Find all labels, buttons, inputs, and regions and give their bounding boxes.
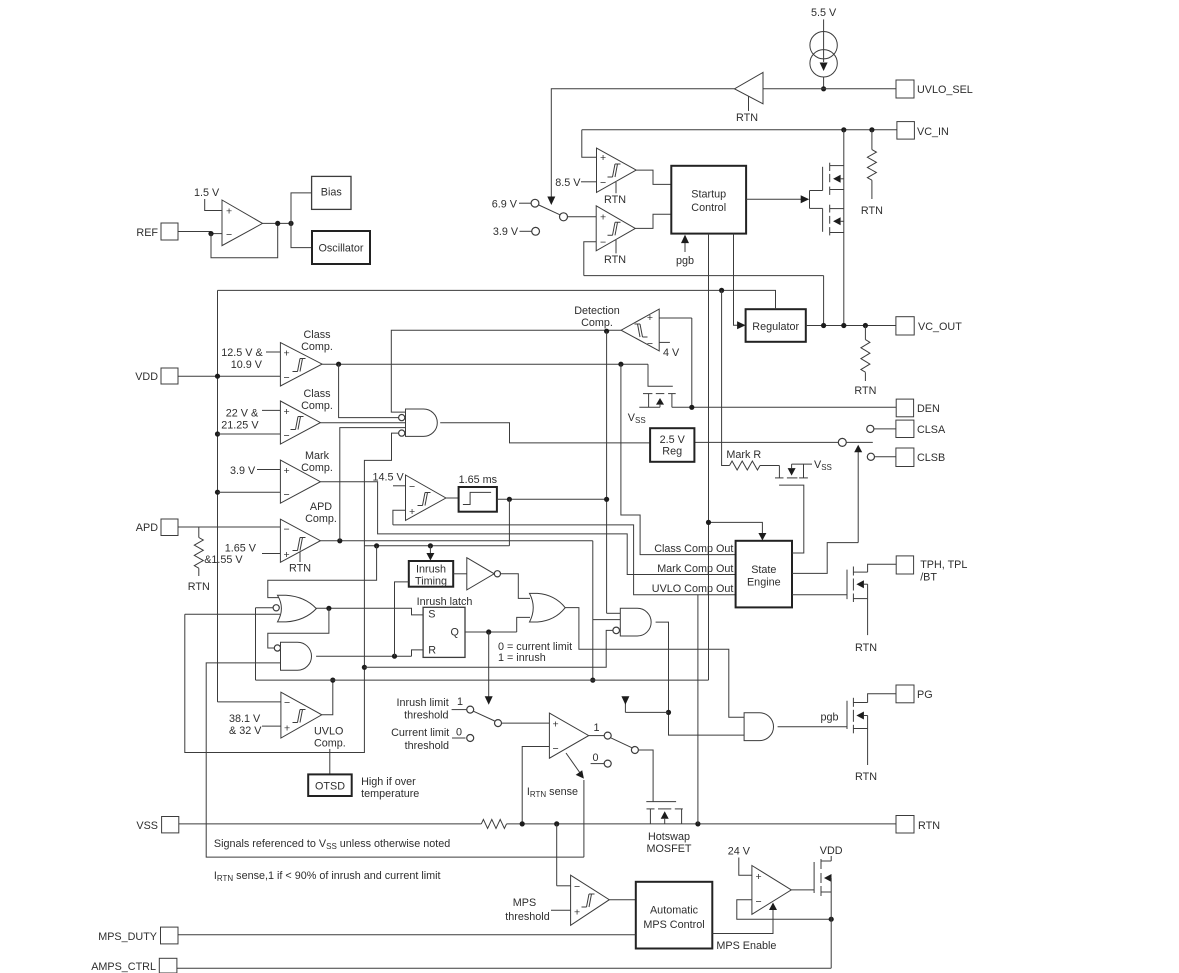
wire Class1 to NAND bubble1 — [339, 364, 399, 417]
pin UVLO_SEL — [896, 80, 914, 98]
wire VDD bus to Mark inverting — [218, 491, 281, 493]
svg-text:3.9 V: 3.9 V — [493, 226, 519, 238]
wire Class Comp Out to State Engine — [621, 364, 736, 554]
svg-text:DEN: DEN — [917, 403, 940, 415]
comparator U9 14.5V — [406, 475, 446, 520]
resistor R_sense — [481, 819, 506, 828]
wire branch arrow to threshold switch — [625, 711, 668, 713]
gate OR2 inrush-or-limit — [530, 593, 566, 622]
wire 1.65ms output — [497, 498, 607, 500]
current source I1 — [823, 19, 825, 33]
wire U12 output — [609, 899, 636, 901]
svg-text:1: 1 — [593, 722, 599, 734]
wire VC_IN rail — [582, 129, 897, 131]
svg-text:MOSFET: MOSFET — [647, 843, 692, 855]
block Bias — [312, 176, 351, 209]
wire UVLO bus — [256, 679, 709, 681]
resistor Mark R — [730, 461, 760, 470]
gate G1 5-input AND (class window) — [406, 409, 438, 436]
svg-text:Hotswap: Hotswap — [648, 831, 690, 843]
wire State Engine top feed — [709, 522, 763, 534]
svg-text:RTN: RTN — [861, 205, 883, 217]
svg-text:OTSD: OTSD — [315, 781, 345, 793]
svg-text:threshold: threshold — [505, 911, 549, 923]
wire Q output to OR2 — [465, 631, 517, 633]
svg-text:Reg: Reg — [662, 446, 682, 458]
svg-text:3.9 V: 3.9 V — [230, 465, 256, 477]
svg-text:−: − — [574, 881, 580, 893]
switch contact inrush threshold — [467, 706, 474, 713]
svg-text:& 32 V: & 32 V — [229, 725, 262, 737]
svg-text:VC_OUT: VC_OUT — [918, 321, 962, 333]
svg-text:Automatic: Automatic — [650, 905, 699, 917]
buffer B1 pointing left — [735, 72, 764, 103]
svg-text:−: − — [284, 697, 290, 709]
svg-text:VDD: VDD — [820, 845, 843, 857]
transistor Q3 hotswap MOSFET — [646, 801, 676, 803]
comparator U2 8.5V — [597, 148, 637, 192]
svg-text:Current limit: Current limit — [391, 727, 449, 739]
node UVLO_SEL net — [821, 86, 826, 91]
svg-text:Class Comp Out: Class Comp Out — [654, 543, 733, 555]
svg-text:pgb: pgb — [676, 255, 694, 267]
svg-text:+: + — [284, 549, 290, 561]
gate AND4 PG — [744, 713, 773, 741]
svg-text:MPS Control: MPS Control — [643, 919, 704, 931]
block 2.5 V Reg — [650, 428, 694, 462]
gate AND3 current-limit qualifier — [620, 608, 651, 636]
svg-text:12.5 V &: 12.5 V & — [221, 347, 263, 359]
wire Mark output to Mark Comp Out — [320, 482, 735, 575]
svg-text:MPS: MPS — [513, 897, 536, 909]
wire FET rail VC_IN to VC_OUT — [843, 130, 845, 326]
svg-text:10.9 V: 10.9 V — [231, 359, 263, 371]
svg-text:VSS: VSS — [136, 820, 158, 832]
svg-text:VC_IN: VC_IN — [917, 126, 949, 138]
pin PG — [896, 685, 914, 703]
wire U13 output to Q8 gate — [791, 889, 814, 891]
wire OTSD stem — [329, 749, 331, 774]
block OTSD — [308, 774, 352, 796]
svg-text:+: + — [600, 212, 606, 224]
pin VC_IN — [897, 122, 915, 140]
wire G1 bubble2 loop (inrush sense) — [185, 433, 399, 752]
svg-text:+: + — [226, 206, 232, 218]
wire latch cross feedback to NAND2 bubble — [268, 608, 329, 648]
wire 1.65ms drop to latch-set net — [508, 499, 510, 546]
pin CLSA — [896, 420, 914, 437]
wire 1.5V to non-inverting input — [205, 199, 222, 211]
wire MPS_DUTY line — [178, 934, 636, 936]
svg-text:Engine: Engine — [747, 577, 781, 589]
comparator U11 current limit — [549, 713, 588, 758]
node VC_IN junctions — [841, 127, 846, 132]
svg-text:+: + — [284, 348, 290, 360]
svg-text:Control: Control — [691, 202, 726, 214]
svg-text:Mark Comp Out: Mark Comp Out — [657, 563, 733, 575]
wire VDD bus vertical — [217, 290, 219, 702]
wire TPH drain to pin — [868, 564, 897, 572]
wire U9 + input from timing net — [393, 510, 406, 525]
gate OR1 latch set — [278, 595, 317, 622]
wire buffer tail RTN — [748, 96, 750, 111]
wire gate drive to hotswap MOSFET — [638, 750, 653, 802]
wire sense vertical — [583, 780, 585, 857]
wire AND4 output pgb to PG FET — [778, 726, 847, 728]
svg-text:RTN: RTN — [855, 642, 877, 654]
transistor Q7 detection FET — [648, 364, 673, 386]
pin TPH TPL BT — [896, 556, 913, 574]
wire UVLO_SEL net — [763, 88, 896, 90]
wire UVLO output riser to bus — [322, 680, 333, 715]
svg-text:Detection: Detection — [574, 305, 620, 317]
wire timing net to UVLO Comp Out — [393, 525, 736, 595]
svg-text:Comp.: Comp. — [581, 317, 613, 329]
comparator U10 UVLO — [281, 692, 322, 738]
wire U3 inverting feedback from VC_OUT — [584, 242, 596, 276]
svg-text:APD: APD — [136, 522, 158, 534]
svg-text:State: State — [751, 564, 776, 576]
svg-text:1 = inrush: 1 = inrush — [498, 652, 546, 664]
svg-text:threshold: threshold — [405, 740, 449, 752]
wire detection output vertical to 1.65ms net and AND gate — [606, 331, 608, 613]
transistor Q1 upper pass FET — [810, 190, 823, 192]
wire branch to Oscillator — [291, 223, 312, 247]
wire inverter output to OR2 — [501, 574, 531, 599]
pin CLSB — [896, 448, 914, 467]
svg-text:S: S — [428, 609, 435, 621]
wire VDD to bus and Class Comp 1 — [178, 375, 280, 377]
switch contact 6.9V — [531, 199, 539, 207]
wire Startup vertical A to UVLO bus — [708, 234, 710, 680]
wire R riser to Inrush Timing input — [395, 582, 409, 656]
svg-text:Oscillator: Oscillator — [319, 243, 364, 255]
switch contact out-0 — [604, 760, 611, 767]
transistor Q8 MPS FET — [813, 862, 815, 893]
wire TPH source to RTN — [867, 599, 869, 636]
wire REF to op-amp inverting input — [178, 231, 211, 233]
block Startup Control — [671, 166, 746, 234]
comparator U3 6.9/3.9V — [596, 206, 635, 251]
wire DEN sense riser — [691, 318, 693, 407]
svg-text:+: + — [284, 406, 290, 418]
svg-text:1.65 ms: 1.65 ms — [459, 474, 498, 486]
wire SE output to class switch arrow — [792, 543, 858, 574]
block State Engine — [736, 541, 792, 608]
comparator U4 Detection (points left) — [621, 309, 659, 351]
wire OR1 bubble input from UVLO bus — [256, 607, 274, 609]
svg-text:+: + — [647, 312, 653, 324]
svg-text:22 V &: 22 V & — [226, 408, 259, 420]
svg-text:Startup: Startup — [691, 189, 726, 201]
svg-text:RTN: RTN — [604, 194, 626, 206]
wire Class1 output — [322, 363, 648, 365]
wire VC_IN to comparator U2 + input — [582, 130, 597, 158]
wire U2 tail RTN — [615, 182, 617, 193]
svg-text:−: − — [756, 896, 762, 908]
svg-text:+: + — [284, 723, 290, 735]
wire Q8 source to AMPS_CTRL — [830, 892, 832, 968]
block Inrush Timing — [409, 561, 453, 587]
wire Q8 drain to VDD — [830, 856, 832, 861]
wire buffer output to UVLO switch — [551, 89, 734, 198]
op-amp U_REF — [222, 200, 263, 246]
transistor Q5 TPH FET — [846, 570, 848, 600]
switch contact CLSB — [867, 453, 874, 460]
wire 4V reference tick — [659, 341, 670, 343]
wire RTN rail — [507, 823, 897, 825]
wire sense branch down — [556, 824, 558, 886]
wire AND3 output to PG AND and switch arrow — [656, 622, 745, 735]
block Automatic MPS Control — [636, 882, 713, 949]
switch pole contact 2.5V — [838, 438, 846, 446]
node bus junction markR — [719, 288, 724, 293]
svg-text:Inrush limit: Inrush limit — [397, 697, 449, 709]
wire U2 output to Startup Control — [636, 170, 671, 184]
comparator U12 MPS threshold — [571, 875, 610, 925]
svg-text:24 V: 24 V — [728, 846, 751, 858]
wire PG drain to pin — [868, 694, 896, 703]
svg-text:+: + — [574, 907, 580, 919]
wire OR2 output to PG AND — [565, 608, 744, 718]
wire latch-set net horizontal — [364, 545, 509, 547]
svg-text:pgb: pgb — [820, 712, 838, 724]
svg-text:−: − — [647, 338, 653, 350]
wire VDD bus to Class2 inverting — [218, 433, 281, 435]
wire AMPS_CTRL line — [177, 967, 831, 969]
svg-text:&1.55 V: &1.55 V — [204, 554, 243, 566]
node detection output junction — [604, 329, 609, 334]
resistor R_VCIN to RTN — [871, 130, 873, 150]
svg-text:threshold: threshold — [404, 710, 448, 722]
svg-text:MPS_DUTY: MPS_DUTY — [98, 931, 157, 943]
wire DEN line — [672, 406, 896, 408]
wire U9 output to 1.65ms — [446, 497, 459, 499]
wire detection + input to VC_OUT sense — [659, 317, 692, 319]
pin RTN — [896, 816, 914, 834]
svg-text:−: − — [600, 237, 606, 249]
svg-text:−: − — [284, 524, 290, 536]
svg-text:CLSA: CLSA — [917, 424, 946, 436]
svg-text:RTN: RTN — [855, 771, 877, 783]
wire SE output to TPH gate — [792, 594, 847, 596]
svg-text:Bias: Bias — [321, 187, 343, 199]
gate NAND2 latch reset — [281, 642, 312, 670]
wire branch to Bias — [291, 193, 312, 224]
wire PG source to RTN — [867, 729, 869, 766]
svg-text:Comp.: Comp. — [301, 341, 333, 353]
pin VDD — [161, 368, 178, 384]
switch contact 3.9V — [532, 227, 540, 235]
pin DEN — [896, 399, 913, 417]
wire APD riser to G1 input D — [340, 428, 406, 541]
svg-text:RTN: RTN — [604, 254, 626, 266]
wire 14.5V ref tick — [393, 485, 406, 487]
wire MPS Enable — [712, 909, 773, 934]
svg-text:−: − — [284, 372, 290, 384]
svg-text:0: 0 — [456, 727, 462, 739]
wire vertical from UVLO Comp Out to RTN rail — [697, 595, 699, 824]
svg-text:RTN: RTN — [736, 112, 758, 124]
svg-text:5.5 V: 5.5 V — [811, 7, 837, 19]
svg-text:1.5 V: 1.5 V — [194, 187, 220, 199]
wire APD comp tail RTN — [299, 552, 301, 563]
wire Startup vertical to Regulator input arrow — [734, 234, 739, 326]
wire Regulator output to VC_OUT — [806, 325, 896, 327]
svg-text:/BT: /BT — [920, 572, 937, 584]
svg-text:1.65 V: 1.65 V — [225, 543, 257, 555]
svg-text:0: 0 — [592, 752, 598, 764]
wire AND3 bubble feed — [364, 630, 612, 667]
node VC_OUT junctions — [821, 323, 826, 328]
svg-text:Comp.: Comp. — [301, 462, 333, 474]
svg-text:−: − — [284, 489, 290, 501]
pin APD — [161, 519, 178, 536]
svg-text:Regulator: Regulator — [752, 321, 799, 333]
svg-text:−: − — [226, 229, 232, 241]
svg-text:14.5 V: 14.5 V — [373, 472, 405, 484]
svg-text:RTN: RTN — [918, 820, 940, 832]
svg-text:38.1 V: 38.1 V — [229, 713, 261, 725]
wire U11 inverting to RTN sense — [522, 747, 549, 824]
svg-text:−: − — [284, 430, 290, 442]
svg-text:+: + — [600, 152, 606, 164]
wire APD output — [320, 540, 592, 542]
svg-text:temperature: temperature — [361, 788, 419, 800]
wire 2.5V Reg output to class switch — [694, 441, 838, 443]
wire Class2 output to gate — [320, 422, 405, 424]
wire branch to AND3 input2 — [593, 619, 621, 621]
wire U3 tail RTN — [615, 240, 617, 253]
transistor Q6 PG FET — [846, 701, 848, 729]
wire detection comp output — [391, 330, 621, 412]
svg-text:RTN: RTN — [854, 385, 876, 397]
svg-text:AMPS_CTRL: AMPS_CTRL — [91, 961, 156, 973]
svg-text:REF: REF — [136, 227, 158, 239]
svg-text:High if over: High if over — [361, 776, 416, 788]
wire U13 feedback — [737, 900, 831, 920]
switch common S2 — [495, 720, 502, 727]
svg-text:−: − — [409, 481, 415, 493]
wire APD corner down to UVLO bus — [592, 541, 594, 680]
svg-text:1: 1 — [457, 696, 463, 708]
switch contact out-1 — [604, 732, 611, 739]
svg-text:R: R — [428, 645, 436, 657]
svg-text:Comp.: Comp. — [305, 513, 337, 525]
svg-text:Timing: Timing — [415, 576, 447, 588]
svg-text:VDD: VDD — [135, 371, 158, 383]
comparator U13 MPS enable — [752, 866, 791, 915]
wire Q branch arrow to threshold switch — [488, 632, 490, 698]
wire OR1 output to latch S — [316, 608, 423, 615]
transistor Q4 mark bleed FET — [778, 466, 780, 478]
svg-text:UVLO: UVLO — [314, 726, 343, 738]
resistor R_VCOUT to RTN — [864, 326, 866, 340]
wire class switch arrow — [857, 451, 859, 543]
switch pole S2 — [474, 711, 495, 721]
svg-text:4 V: 4 V — [663, 347, 680, 359]
wire OR1 third input — [185, 613, 280, 615]
svg-text:RTN: RTN — [289, 563, 311, 575]
wire 24V to comparator — [739, 858, 752, 876]
svg-text:2.5 V: 2.5 V — [660, 434, 686, 446]
wire VSS rail — [179, 823, 482, 825]
transistor Q2 lower pass FET — [810, 207, 823, 209]
svg-text:Class: Class — [304, 388, 332, 400]
wire trigger into Inrush Timing — [429, 546, 431, 555]
svg-text:+: + — [756, 871, 762, 883]
switch pole S3 — [611, 738, 632, 748]
switch pole S1 — [539, 205, 560, 215]
wire APD to comparator — [178, 526, 280, 528]
wire feedback loop — [211, 223, 278, 257]
svg-text:6.9 V: 6.9 V — [492, 198, 518, 210]
pin VC_OUT — [896, 317, 914, 335]
svg-text:Comp.: Comp. — [301, 400, 333, 412]
svg-text:+: + — [553, 719, 559, 731]
resistor R_APD to RTN — [198, 527, 200, 538]
svg-text:−: − — [600, 177, 606, 189]
node output junctions — [275, 221, 280, 226]
svg-text:RTN: RTN — [188, 581, 210, 593]
svg-text:TPH, TPL: TPH, TPL — [920, 559, 967, 571]
wire VDD bus to UVLO inverting — [218, 701, 281, 703]
wire branch down to OR1 top input — [268, 546, 377, 598]
wire U3 output to Startup Control — [635, 214, 671, 228]
svg-text:Inrush: Inrush — [416, 564, 446, 576]
svg-text:IRTN sense,1 if < 90% of inrus: IRTN sense,1 if < 90% of inrush and curr… — [214, 870, 441, 883]
wire main bus y290 from VDD to Regulator top — [218, 290, 776, 309]
switch common — [560, 213, 568, 221]
pin MPS_DUTY — [161, 927, 179, 944]
wire U11 output to contact 1 — [589, 735, 605, 737]
svg-text:−: − — [553, 743, 559, 755]
svg-text:CLSB: CLSB — [917, 452, 945, 464]
inverter B2 — [453, 573, 467, 575]
block Oscillator — [312, 231, 370, 264]
svg-text:+: + — [409, 506, 415, 518]
wire op-amp output — [263, 222, 292, 224]
wire MPS inverting from RTN sense — [557, 885, 571, 887]
svg-text:8.5 V: 8.5 V — [555, 177, 581, 189]
switch common S3 — [631, 747, 638, 754]
svg-text:MPS Enable: MPS Enable — [716, 940, 776, 952]
wire Startup Control gate drive arrow — [746, 198, 801, 200]
switch contact current limit threshold — [467, 735, 474, 742]
svg-text:Mark: Mark — [305, 450, 330, 462]
pin REF — [161, 223, 178, 240]
switch contact CLSA — [867, 425, 874, 432]
svg-text:Inrush latch: Inrush latch — [417, 596, 473, 608]
svg-text:UVLO_SEL: UVLO_SEL — [917, 84, 973, 96]
svg-text:Class: Class — [304, 329, 332, 341]
wire Q4 gate from State Engine — [779, 485, 804, 553]
svg-text:Comp.: Comp. — [314, 738, 346, 750]
svg-text:21.25 V: 21.25 V — [221, 420, 259, 432]
svg-text:Mark R: Mark R — [726, 449, 761, 461]
block Regulator — [746, 309, 806, 342]
svg-text:+: + — [284, 465, 290, 477]
node REF feedback junction — [208, 231, 213, 236]
svg-text:APD: APD — [310, 501, 332, 513]
wire Mark R branch from bus — [722, 290, 730, 465]
svg-text:UVLO Comp Out: UVLO Comp Out — [652, 583, 734, 595]
pin AMPS_CTRL — [159, 958, 177, 973]
pin VSS — [162, 817, 179, 833]
svg-text:Q: Q — [451, 627, 459, 639]
wire NAND2 output to latch R — [316, 655, 411, 657]
svg-text:PG: PG — [917, 689, 933, 701]
